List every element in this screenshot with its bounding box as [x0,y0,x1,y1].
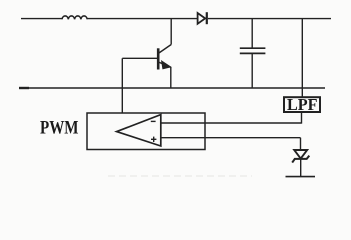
wire zener to ground bar [300,159,302,176]
wire comparator minus input line [161,122,302,124]
svg-text:LPF: LPF [287,95,318,114]
wire right vertical from top rail to LPF [301,19,303,97]
wire comparator plus input line [161,137,301,139]
capacitor C1 [240,19,266,88]
inductor L1 [62,16,87,19]
zener diode D2 [292,150,309,163]
wire base of Q1 [122,57,157,59]
wire plus line down to zener [300,138,302,150]
svg-text:PWM: PWM [40,119,79,139]
wire top rail left of inductor [21,18,62,20]
wire top rail inductor to diode [87,18,197,20]
wire top rail diode to right end [208,18,331,20]
wire LPF bottom to minus line [301,112,303,124]
PWM block [87,113,205,150]
LPF block [284,97,320,112]
transistor Q1 [158,19,171,88]
faint scan artifact bottom [108,175,252,177]
wire middle rail left stub [19,87,29,89]
ground [286,176,316,178]
op-amp comparator U1 [117,115,161,146]
diode D1 [198,12,207,24]
wire base down to PWM block [121,58,123,113]
wire middle rail [19,87,325,89]
